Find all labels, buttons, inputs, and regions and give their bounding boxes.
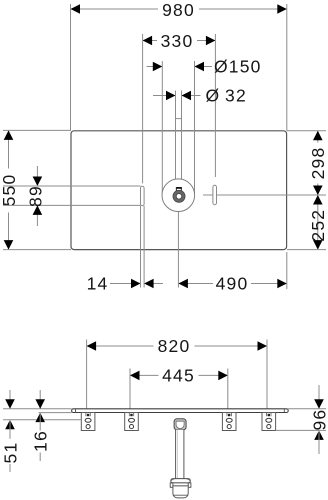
siphon cup bbox=[173, 486, 188, 498]
right slot hole bbox=[213, 185, 217, 204]
svg-text:Ø150: Ø150 bbox=[214, 57, 262, 77]
dimension diameter 32 bbox=[153, 86, 247, 188]
dimension 51 bbox=[0, 390, 81, 472]
dimension 550 bbox=[0, 130, 71, 249]
svg-text:820: 820 bbox=[158, 336, 191, 356]
right slot centerline bbox=[203, 194, 326, 196]
dimension 252 bbox=[287, 195, 328, 250]
svg-text:980: 980 bbox=[162, 0, 195, 20]
siphon collar bbox=[171, 479, 191, 483]
dimension 490 bbox=[178, 212, 286, 293]
siphon circle diameter 150 bbox=[162, 179, 195, 212]
siphon clamp band with tabs bbox=[170, 483, 191, 487]
dimension diameter 150 bbox=[147, 57, 262, 194]
siphon pipe bbox=[176, 430, 184, 479]
svg-text:89: 89 bbox=[25, 185, 45, 207]
dimension 980 bbox=[71, 0, 287, 131]
svg-text:14: 14 bbox=[87, 273, 109, 293]
dimension 298 bbox=[287, 131, 328, 195]
svg-text:330: 330 bbox=[161, 31, 194, 51]
dimension 96 bbox=[276, 385, 328, 454]
dimension 14 bbox=[87, 206, 163, 294]
bracket 3 bbox=[222, 413, 236, 431]
dimension 445 bbox=[130, 366, 228, 409]
tap hole marker rect bbox=[176, 188, 181, 192]
svg-text:550: 550 bbox=[0, 174, 19, 207]
svg-text:445: 445 bbox=[162, 366, 195, 386]
tap hole ring bbox=[175, 192, 184, 201]
svg-text:298: 298 bbox=[308, 147, 328, 180]
svg-text:51: 51 bbox=[0, 442, 20, 464]
dimension 330 bbox=[143, 31, 216, 184]
dimension 820 bbox=[87, 336, 267, 409]
left slot hole bbox=[141, 186, 145, 205]
dimension 16 bbox=[30, 390, 71, 461]
svg-text:96: 96 bbox=[309, 409, 328, 431]
svg-text:490: 490 bbox=[216, 273, 249, 293]
bracket 4 bbox=[262, 413, 276, 431]
svg-text:16: 16 bbox=[30, 430, 50, 452]
bracket 1 bbox=[81, 413, 95, 431]
svg-text:252: 252 bbox=[308, 209, 328, 242]
siphon top fitting bbox=[174, 419, 186, 430]
svg-text:Ø 32: Ø 32 bbox=[206, 86, 247, 106]
washbasin outline top view bbox=[71, 131, 287, 250]
dimension 89 bbox=[3, 166, 141, 226]
bracket 2 bbox=[125, 413, 139, 431]
wall plate front view bbox=[72, 409, 289, 413]
